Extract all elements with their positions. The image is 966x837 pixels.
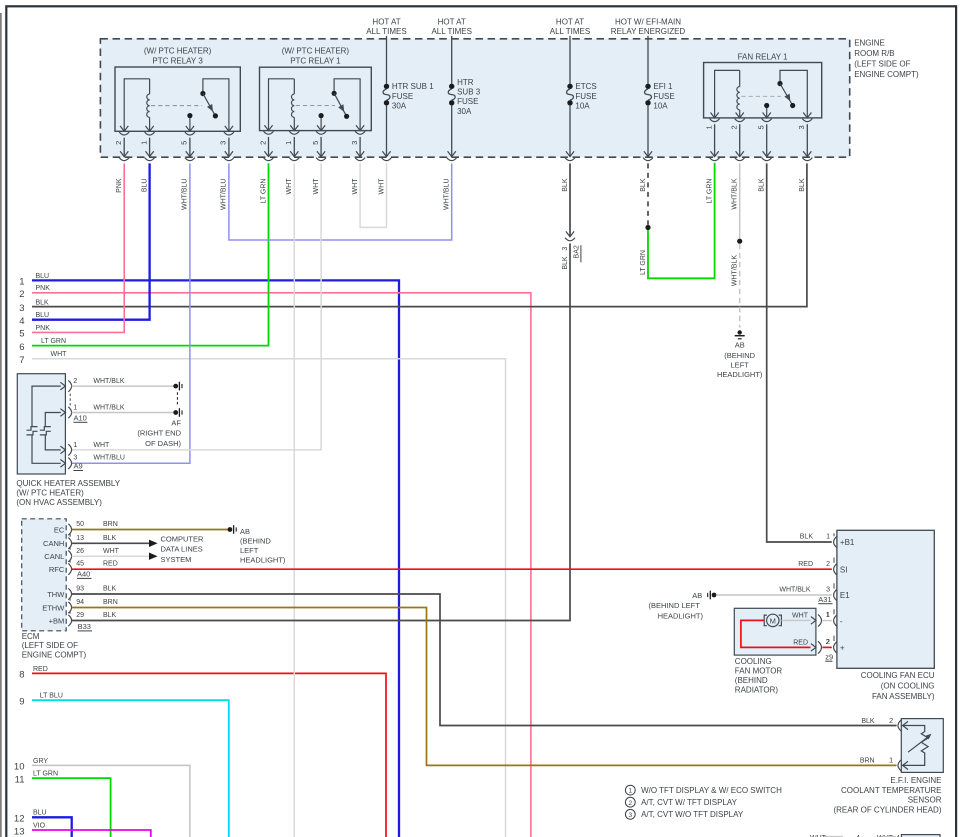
svg-text:1: 1 (73, 405, 77, 412)
quick heater pin 1b arc (68, 444, 71, 455)
heater wiring pin1 (45, 413, 61, 427)
svg-text:PNK: PNK (36, 325, 51, 332)
quick heater pin 2 arc (68, 380, 71, 391)
wire WHT U2 pin5 to quick heater pin1 (72, 163, 321, 450)
wire BLK THW to EFI coolant sensor pin 2 (72, 594, 897, 726)
svg-text:BLK: BLK (640, 178, 647, 192)
svg-text:FUSE: FUSE (392, 92, 413, 101)
wire LT GRN EFI 1 fuse to fan relay pin 1 (648, 163, 715, 278)
svg-text:z9: z9 (825, 652, 833, 661)
wire BLK EFI 1 fuse (dashed) (647, 163, 649, 225)
relay U1 coil (124, 79, 149, 132)
motor pin 1 connector (818, 614, 822, 626)
svg-text:WHT: WHT (313, 178, 320, 195)
quick heater pin 1 arc (68, 407, 71, 418)
svg-text:BLK: BLK (562, 178, 569, 192)
wire BRN EC to AB (72, 529, 228, 531)
svg-text:(LEFT SIDE OF: (LEFT SIDE OF (22, 641, 78, 650)
svg-text:E.F.I. ENGINE: E.F.I. ENGINE (890, 776, 941, 785)
connector AB below fan relay (738, 330, 742, 334)
fuse HTR SUB 1 30A (386, 36, 388, 84)
fuse EFI 1 10A (647, 36, 649, 84)
svg-text:FAN MOTOR: FAN MOTOR (735, 666, 783, 675)
svg-text:EFI 1: EFI 1 (653, 82, 673, 91)
svg-text:94: 94 (76, 599, 84, 606)
note 2 (625, 797, 635, 807)
svg-text:12: 12 (14, 814, 25, 825)
svg-text:THW: THW (47, 590, 65, 599)
wire 7 WHT (32, 359, 506, 837)
note 3 (625, 809, 635, 819)
motor wire WHT (781, 619, 810, 621)
svg-text:RADIATOR): RADIATOR) (735, 685, 779, 694)
wire 6 LT GRN (to U2 pin 2) (32, 163, 269, 345)
svg-text:WHT: WHT (286, 178, 293, 195)
svg-text:FAN RELAY 1: FAN RELAY 1 (738, 52, 789, 61)
wire 9 LT BLU (32, 700, 229, 837)
svg-text:(W/ PTC HEATER): (W/ PTC HEATER) (282, 47, 350, 56)
svg-text:W/O TFT DISPLAY & W/ ECO SWITC: W/O TFT DISPLAY & W/ ECO SWITCH (641, 786, 782, 795)
svg-text:3: 3 (73, 455, 77, 462)
svg-text:LEFT: LEFT (240, 546, 259, 555)
sensor pin 2 (898, 720, 901, 731)
motor M1 symbol (767, 614, 779, 626)
svg-text:1: 1 (826, 534, 830, 541)
wire 4 BLU (to U1 pin 1) (32, 163, 150, 319)
svg-text:ENGINE COMPT): ENGINE COMPT) (22, 651, 87, 660)
svg-text:COOLING: COOLING (735, 657, 772, 666)
svg-text:10A: 10A (653, 101, 668, 110)
svg-text:BLU: BLU (36, 273, 50, 280)
wire WHT/BLK to AB (dashed) (739, 244, 741, 328)
svg-text:2: 2 (258, 141, 267, 145)
connector BA2 pin 3 (arrow+cup) (566, 231, 574, 236)
EFI engine coolant temperature sensor body (901, 719, 943, 773)
wire 1 BLU (32, 280, 399, 837)
connector pin ticks ECU (833, 533, 835, 536)
svg-text:A31: A31 (818, 595, 831, 604)
svg-text:A/T, CVT W/ TFT DISPLAY: A/T, CVT W/ TFT DISPLAY (641, 798, 738, 807)
relay U2 switch (334, 79, 360, 131)
svg-text:LT GRN: LT GRN (640, 250, 647, 275)
svg-text:AB: AB (692, 591, 702, 600)
svg-text:1: 1 (889, 755, 893, 764)
wire WHT U2 pin1 down (293, 163, 295, 837)
svg-text:2: 2 (628, 800, 632, 807)
page edge hairline (0, 13, 2, 837)
ECM pin RFC (45 RED) (68, 563, 71, 574)
relay U3 link (dashed) (741, 95, 781, 97)
svg-text:ETCS: ETCS (575, 82, 596, 91)
svg-text:13: 13 (14, 826, 25, 837)
svg-text:1: 1 (628, 788, 632, 795)
svg-text:BLU: BLU (33, 810, 47, 817)
wire WHT CANL to computer data lines (72, 555, 149, 557)
svg-text:ENGINE: ENGINE (854, 38, 885, 47)
wire WHT/BLK quick heater pin2 to AF (72, 385, 174, 387)
svg-text:BLK: BLK (103, 612, 117, 619)
svg-text:BLU: BLU (141, 179, 148, 193)
motor pin 2 connector (818, 641, 822, 653)
svg-text:HOT AT: HOT AT (372, 18, 400, 27)
ECM pin THW (93 BLK) (68, 588, 71, 599)
relay U3 pin 5 (763, 113, 771, 118)
ECM body (22, 519, 66, 631)
svg-text:PNK: PNK (116, 178, 123, 193)
svg-text:RFC: RFC (49, 565, 65, 574)
svg-text:WHT/BLK: WHT/BLK (93, 405, 124, 412)
wire 12 BLU (32, 817, 72, 837)
svg-text:(RIGHT END: (RIGHT END (137, 429, 181, 438)
svg-text:1: 1 (73, 442, 77, 449)
svg-text:ETHW: ETHW (42, 603, 65, 612)
svg-text:FAN ASSEMBLY): FAN ASSEMBLY) (872, 692, 935, 701)
wire 8 RED (32, 673, 386, 837)
svg-text:A10: A10 (74, 413, 87, 422)
svg-text:PNK: PNK (36, 285, 51, 292)
svg-text:LEFT: LEFT (731, 360, 750, 369)
svg-text:(W/ PTC HEATER): (W/ PTC HEATER) (16, 489, 84, 498)
svg-text:PTC RELAY 1: PTC RELAY 1 (290, 57, 341, 66)
svg-text:WHT/BLK: WHT/BLK (779, 587, 810, 594)
wire BLK ETCS fuse upper (569, 163, 571, 236)
svg-text:WHT: WHT (93, 442, 110, 449)
svg-text:HEADLIGHT): HEADLIGHT) (658, 611, 704, 620)
svg-text:(ON HVAC ASSEMBLY): (ON HVAC ASSEMBLY) (16, 498, 102, 507)
svg-text:RED: RED (33, 666, 48, 673)
heater element 2 (40, 427, 51, 431)
svg-text:BA2: BA2 (574, 245, 581, 258)
relay U1 pin 5 (186, 126, 194, 131)
svg-text:RED: RED (793, 639, 808, 646)
relay U3 pin 3 (803, 113, 811, 118)
relay U2 link (dashed) (296, 105, 335, 107)
svg-text:CANL: CANL (44, 552, 64, 561)
ECM pin CANH (13 BLK) (68, 538, 71, 549)
connector pin ticks ECM (69, 534, 71, 537)
svg-text:29: 29 (76, 612, 84, 619)
cooling fan ECU pin +B1 (834, 536, 837, 547)
relay U1 switch (203, 79, 229, 132)
svg-text:AB: AB (240, 527, 250, 536)
svg-text:2: 2 (889, 716, 893, 725)
svg-text:+: + (840, 644, 845, 653)
svg-text:ALL TIMES: ALL TIMES (550, 27, 590, 36)
svg-text:(W/ PTC HEATER): (W/ PTC HEATER) (144, 47, 212, 56)
svg-text:3: 3 (19, 303, 24, 314)
svg-text:+B1: +B1 (840, 538, 855, 547)
svg-text:BLK: BLK (800, 534, 814, 541)
relay U1 link (dashed) (151, 105, 202, 107)
svg-text:3: 3 (797, 125, 806, 129)
svg-text:2: 2 (19, 289, 24, 300)
relay U3 coil (715, 70, 740, 118)
svg-text:45: 45 (76, 561, 84, 568)
svg-text:SYSTEM: SYSTEM (161, 555, 192, 564)
sensor pin 1 (898, 760, 901, 771)
relay U1 pin 2 (120, 126, 128, 131)
svg-text:DATA LINES: DATA LINES (161, 545, 203, 554)
wire 13 VIO (32, 830, 151, 837)
svg-text:QUICK HEATER ASSEMBLY: QUICK HEATER ASSEMBLY (16, 479, 120, 488)
relay U3 switch (780, 70, 807, 118)
quick heater pin 3 arc (68, 458, 71, 469)
svg-text:BLK: BLK (103, 535, 117, 542)
svg-text:BRN: BRN (860, 757, 875, 764)
svg-text:WHT: WHT (51, 351, 68, 358)
svg-text:ROOM R/B: ROOM R/B (854, 49, 894, 58)
heater wiring pin2 (32, 386, 61, 427)
svg-text:3: 3 (628, 812, 632, 819)
svg-text:LT GRN: LT GRN (260, 179, 267, 204)
fuse HTR SUB 3 30A (451, 36, 453, 84)
svg-text:2: 2 (73, 378, 77, 385)
svg-text:1: 1 (826, 612, 830, 619)
svg-text:GRY: GRY (33, 758, 48, 765)
svg-text:BLK: BLK (861, 718, 875, 725)
junction WHT/BLK splice (737, 239, 742, 244)
svg-text:(LEFT SIDE OF: (LEFT SIDE OF (854, 59, 910, 68)
wire WHT/BLK quick heater pin1 to AF (72, 412, 174, 414)
wire 11 LT GRN (32, 778, 111, 837)
svg-text:WHT: WHT (352, 178, 359, 195)
svg-text:BLK: BLK (799, 178, 806, 192)
ECM pin ETHW (94 BRN) (68, 602, 71, 613)
wire 3 BLK (to fan relay pin 3) (32, 163, 807, 306)
svg-text:RELAY ENERGIZED: RELAY ENERGIZED (611, 27, 686, 36)
relay U2 pin 2 (264, 125, 272, 130)
svg-text:AB: AB (735, 341, 745, 350)
svg-text:A9: A9 (74, 462, 83, 471)
svg-text:1: 1 (139, 141, 148, 145)
cooling fan ECU pin SI (834, 564, 837, 575)
svg-text:HEADLIGHT): HEADLIGHT) (240, 556, 286, 565)
relay U1 PTC RELAY 3 body (115, 67, 240, 131)
svg-text:LT BLU: LT BLU (40, 693, 63, 700)
quick heater connector dash A10 (69, 394, 71, 406)
svg-text:ENGINE COMPT): ENGINE COMPT) (854, 70, 919, 79)
svg-text:COMPUTER: COMPUTER (161, 535, 205, 544)
svg-text:8: 8 (19, 670, 24, 681)
connector AF lower (173, 410, 178, 415)
svg-text:30A: 30A (392, 101, 407, 110)
svg-text:RED: RED (103, 561, 118, 568)
junction EFI1-LT GRN (645, 225, 650, 230)
svg-text:1: 1 (704, 125, 713, 129)
svg-text:RED: RED (798, 561, 813, 568)
wire 5 PNK (to U1 pin 2) (32, 163, 124, 332)
svg-text:30A: 30A (457, 107, 472, 116)
relay U3 FAN RELAY 1 body (704, 63, 822, 118)
svg-text:2: 2 (826, 639, 830, 646)
ECM pin EC (50 BRN) (68, 524, 71, 535)
svg-text:OF DASH): OF DASH) (145, 439, 181, 448)
cooling fan motor body (734, 608, 816, 655)
relay U3 pin 1 (711, 113, 719, 118)
svg-text:CANH: CANH (43, 539, 64, 548)
svg-text:2: 2 (730, 125, 739, 129)
svg-text:A40: A40 (77, 570, 90, 579)
relay box ENGINE ROOM R/B (dashed, filled) (100, 39, 849, 157)
quick heater assembly body (17, 374, 65, 474)
relay U1 pin 1 (146, 126, 154, 131)
svg-text:5: 5 (19, 329, 24, 340)
svg-text:WHT/BLU: WHT/BLU (221, 179, 228, 211)
wire RED RFC to cooling fan ECU SI (72, 568, 832, 570)
heater wiring pin3 (32, 435, 61, 463)
wire BLK CANH to computer data lines (72, 542, 149, 544)
svg-text:SUB 3: SUB 3 (457, 88, 481, 97)
relay U2 pin 1 (290, 125, 298, 130)
svg-text:(REAR OF CYLINDER HEAD): (REAR OF CYLINDER HEAD) (833, 805, 941, 814)
svg-text:COOLANT TEMPERATURE: COOLANT TEMPERATURE (841, 786, 941, 795)
svg-text:HTR SUB 1: HTR SUB 1 (392, 82, 434, 91)
svg-text:LT GRN: LT GRN (33, 771, 58, 778)
relay U2 coil (269, 79, 295, 131)
svg-text:50: 50 (76, 521, 84, 528)
svg-text:26: 26 (76, 548, 84, 555)
svg-text:HEADLIGHT): HEADLIGHT) (717, 370, 763, 379)
note 1 (625, 785, 635, 795)
svg-text:BRN: BRN (103, 599, 118, 606)
ECM pin +BM (29 BLK) (68, 615, 71, 626)
svg-text:9: 9 (19, 697, 24, 708)
svg-text:-: - (840, 617, 843, 626)
svg-text:3: 3 (350, 141, 359, 145)
svg-text:11: 11 (15, 774, 25, 785)
svg-text:B33: B33 (78, 622, 91, 631)
wire WHT/BLU U1 pin3 to HTR SUB 3 fuse (229, 163, 452, 240)
svg-text:(BEHIND: (BEHIND (724, 351, 755, 360)
svg-text:5: 5 (757, 125, 766, 129)
svg-text:FUSE: FUSE (575, 92, 596, 101)
motor wire RED (741, 620, 811, 647)
wire WHT U2 pin3 to HTR SUB 1 fuse (360, 163, 386, 227)
svg-text:(BEHIND LEFT: (BEHIND LEFT (649, 601, 701, 610)
svg-text:1: 1 (284, 141, 293, 145)
heater element 1 (27, 427, 38, 431)
relay U1 pin 3 (225, 126, 233, 131)
ECM pin CANL (26 WHT) (68, 551, 71, 562)
svg-text:2: 2 (114, 141, 123, 145)
svg-text:ECM: ECM (22, 632, 40, 641)
svg-text:5: 5 (180, 141, 189, 145)
svg-text:1: 1 (19, 277, 24, 288)
svg-text:WHT/BLK: WHT/BLK (732, 178, 739, 209)
svg-text:A/T, CVT W/O TFT DISPLAY: A/T, CVT W/O TFT DISPLAY (641, 810, 744, 819)
svg-text:HTR: HTR (457, 78, 474, 87)
heater wiring pin1b (45, 435, 61, 450)
svg-text:(ON COOLING: (ON COOLING (881, 681, 935, 690)
svg-text:BLU: BLU (36, 312, 50, 319)
svg-text:93: 93 (76, 586, 84, 593)
svg-text:COOLING FAN ECU: COOLING FAN ECU (861, 671, 935, 680)
relay U3 pin 2 (736, 113, 744, 118)
svg-text:VIO: VIO (33, 822, 46, 829)
thermistor RT1 (901, 726, 928, 766)
svg-text:PTC RELAY 3: PTC RELAY 3 (152, 57, 203, 66)
cooling fan ECU body (837, 530, 934, 668)
svg-text:3: 3 (826, 587, 830, 594)
svg-text:10A: 10A (575, 101, 590, 110)
svg-text:HOT AT: HOT AT (556, 18, 584, 27)
svg-text:AF: AF (171, 418, 181, 427)
svg-text:WHT/BLU: WHT/BLU (93, 455, 125, 462)
fuse ETCS 10A (569, 36, 571, 84)
svg-text:BLK: BLK (36, 299, 50, 306)
cooling fan ECU pin - (834, 615, 837, 626)
wire BRN ETHW to EFI coolant sensor pin 1 (72, 608, 897, 766)
relay U2 pin 3 (356, 125, 364, 130)
svg-text:SENSOR: SENSOR (908, 796, 942, 805)
wire BLK ETCS fuse to ECM +BM (72, 243, 570, 620)
wire WHT/BLK AB to ECU E1 (716, 594, 831, 596)
svg-text:13: 13 (76, 535, 84, 542)
svg-text:WHT: WHT (103, 548, 120, 555)
svg-text:WHT/BLU: WHT/BLU (444, 179, 451, 211)
svg-text:FUSE: FUSE (653, 92, 674, 101)
svg-text:3: 3 (562, 247, 569, 251)
svg-text:(BEHIND: (BEHIND (240, 536, 271, 545)
wire 10 GRY (32, 765, 190, 837)
svg-text:BLK: BLK (103, 586, 117, 593)
svg-text:4: 4 (19, 316, 24, 327)
svg-text:HOT AT: HOT AT (438, 18, 466, 27)
svg-text:6: 6 (19, 342, 24, 353)
svg-text:3: 3 (219, 141, 228, 145)
svg-text:WHT/BLK: WHT/BLK (732, 255, 739, 286)
svg-text:LT GRN: LT GRN (706, 179, 713, 204)
svg-text:10: 10 (14, 762, 25, 773)
svg-text:HOT W/ EFI-MAIN: HOT W/ EFI-MAIN (615, 18, 681, 27)
svg-text:+BM: +BM (49, 616, 65, 625)
connector AB (EC wire) (228, 527, 233, 532)
wire WHT/BLU U1 pin5 to quick heater pin3 (72, 163, 190, 463)
cooling fan ECU pin E1 (834, 589, 837, 600)
svg-text:WHT: WHT (792, 612, 809, 619)
svg-text:2: 2 (826, 561, 830, 568)
svg-text:5: 5 (311, 141, 320, 145)
svg-text:BLK: BLK (562, 256, 569, 270)
wire 2 PNK (32, 293, 531, 837)
svg-text:FUSE: FUSE (457, 97, 478, 106)
svg-text:BRN: BRN (103, 521, 118, 528)
svg-text:WHT/BLK: WHT/BLK (93, 378, 124, 385)
connector AB (E1 wire) (712, 593, 717, 598)
relay U2 PTC RELAY 1 body (260, 67, 372, 130)
svg-text:WHT: WHT (378, 178, 385, 195)
svg-text:SI: SI (840, 566, 848, 575)
relay U2 pin 5 (317, 125, 325, 130)
svg-text:ALL TIMES: ALL TIMES (431, 27, 471, 36)
svg-text:E1: E1 (840, 591, 850, 600)
svg-text:7: 7 (19, 355, 24, 366)
svg-text:BLK: BLK (759, 178, 766, 192)
svg-text:(BEHIND: (BEHIND (735, 676, 768, 685)
svg-text:LT GRN: LT GRN (41, 338, 66, 345)
connector AF upper (173, 384, 178, 389)
wire BLK fan relay pin 5 to ECU +B1 (767, 163, 832, 542)
svg-text:EC: EC (54, 525, 65, 534)
svg-text:WHT/BLU: WHT/BLU (182, 179, 189, 211)
svg-text:ALL TIMES: ALL TIMES (366, 27, 406, 36)
wire WHT/BLK fan relay pin 2 upper (739, 163, 741, 238)
connector AF dashed link (176, 392, 178, 406)
cooling fan ECU pin + (834, 642, 837, 653)
svg-text:M: M (770, 616, 776, 625)
